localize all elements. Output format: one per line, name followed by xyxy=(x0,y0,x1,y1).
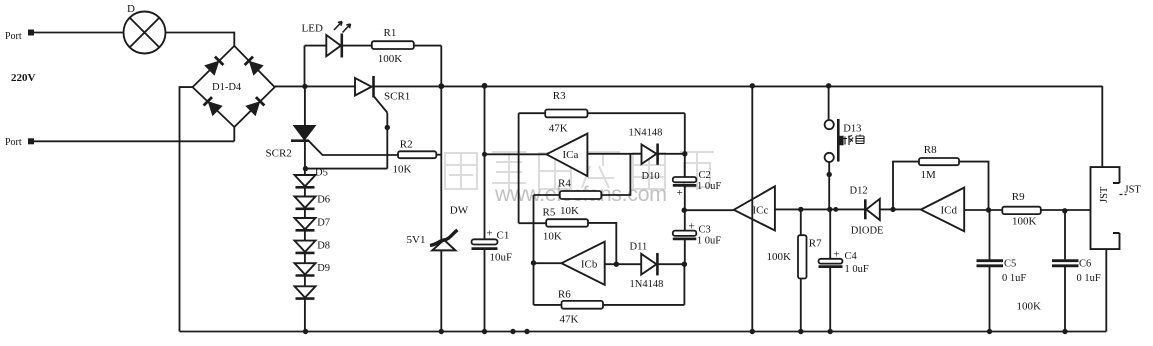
diode (unlabeled, chain) xyxy=(295,286,316,298)
svg-text:C5: C5 xyxy=(1004,259,1016,270)
svg-text:1N4148: 1N4148 xyxy=(629,128,663,139)
junction xyxy=(827,172,832,177)
svg-text:D6: D6 xyxy=(317,195,330,206)
svg-text:1M: 1M xyxy=(921,169,937,181)
svg-text:D9: D9 xyxy=(317,263,330,274)
junction xyxy=(1062,329,1067,334)
svg-text:R2: R2 xyxy=(400,139,413,151)
junction xyxy=(438,83,444,89)
svg-text:220V: 220V xyxy=(11,72,36,84)
label 220V xyxy=(11,72,36,84)
svg-text:R6: R6 xyxy=(558,289,571,301)
svg-text:D11: D11 xyxy=(630,242,648,253)
junction xyxy=(986,207,991,212)
wire (top rail) xyxy=(275,85,1103,87)
svg-text:100K: 100K xyxy=(1017,301,1042,313)
svg-text:R7: R7 xyxy=(809,238,822,250)
resistor R9 xyxy=(1002,191,1041,228)
junction xyxy=(482,83,488,89)
svg-text:ICb: ICb xyxy=(581,259,598,271)
svg-text:+: + xyxy=(689,221,695,233)
svg-text:SCR2: SCR2 xyxy=(266,148,292,160)
svg-text:C4: C4 xyxy=(845,251,858,262)
wire xyxy=(605,263,685,265)
svg-text:D12: D12 xyxy=(850,186,868,197)
svg-text:+: + xyxy=(677,187,683,199)
junction xyxy=(682,151,687,156)
capacitor C1 xyxy=(472,228,513,264)
wire xyxy=(180,87,193,331)
svg-text:1 0uF: 1 0uF xyxy=(697,236,721,247)
diode D10 xyxy=(629,128,663,183)
wire (feedback box left) xyxy=(518,113,520,223)
resistor R8 xyxy=(893,144,989,210)
svg-text:C3: C3 xyxy=(699,225,711,236)
capacitor C5 xyxy=(977,210,1027,332)
LED xyxy=(302,22,372,58)
wire xyxy=(684,209,734,211)
op-amp ICd xyxy=(921,188,964,232)
svg-text:1N4148: 1N4148 xyxy=(630,279,664,290)
junction xyxy=(303,166,308,171)
thyristor SCR1 xyxy=(355,76,410,113)
junction xyxy=(682,262,687,267)
svg-text:D8: D8 xyxy=(317,241,330,252)
junction xyxy=(614,262,619,267)
capacitor C3 xyxy=(673,221,721,247)
svg-text:SCR1: SCR1 xyxy=(384,91,410,103)
wire xyxy=(534,262,562,264)
wire xyxy=(684,113,686,264)
svg-text:1 0uF: 1 0uF xyxy=(697,181,721,192)
wire xyxy=(1101,86,1103,167)
thyristor SCR2 xyxy=(266,126,315,160)
junction xyxy=(828,329,833,334)
junction xyxy=(385,125,390,130)
wire xyxy=(309,141,399,155)
svg-text:D10: D10 xyxy=(642,171,660,182)
zener diode DW 5V1 xyxy=(407,205,469,251)
resistor R1 xyxy=(372,27,442,65)
svg-text:R8: R8 xyxy=(924,144,937,156)
wire xyxy=(1105,249,1107,331)
diode D5 xyxy=(295,168,328,188)
resistor R2 xyxy=(393,139,442,176)
wire xyxy=(304,46,306,87)
junction xyxy=(482,329,487,334)
wire (diode chain) xyxy=(304,86,306,331)
junction xyxy=(439,329,444,334)
diode D6 xyxy=(295,195,331,209)
resistor R3 xyxy=(519,90,685,135)
svg-text:D: D xyxy=(127,3,135,15)
svg-text:ICc: ICc xyxy=(753,205,769,217)
junction xyxy=(750,83,755,88)
junction xyxy=(302,84,307,89)
resistor R6 xyxy=(534,264,685,325)
wire xyxy=(306,168,388,170)
wire xyxy=(386,113,388,169)
svg-text:C2: C2 xyxy=(699,170,711,181)
svg-text:100K: 100K xyxy=(378,53,403,65)
bridge rectifier D1-D4 xyxy=(193,46,275,127)
junction xyxy=(1062,208,1067,213)
diode D7 xyxy=(295,218,331,231)
junction xyxy=(531,260,536,265)
terminal Port (neutral input) xyxy=(5,137,34,148)
resistor R4 xyxy=(534,154,631,199)
op-amp ICa xyxy=(546,134,587,177)
svg-text:100K: 100K xyxy=(767,251,792,263)
svg-text:DW: DW xyxy=(450,205,469,217)
svg-text:10K: 10K xyxy=(543,231,562,243)
diode D12 xyxy=(850,186,884,237)
svg-text:Port: Port xyxy=(5,31,22,42)
svg-text:R5: R5 xyxy=(543,207,556,219)
svg-text:D5: D5 xyxy=(315,168,328,179)
junction xyxy=(890,207,895,212)
wire xyxy=(485,153,547,155)
svg-text:ICd: ICd xyxy=(941,205,958,217)
svg-text:5V1: 5V1 xyxy=(407,234,426,246)
capacitor C2 xyxy=(673,170,722,199)
junction xyxy=(524,329,529,334)
svg-text:0 1uF: 0 1uF xyxy=(1077,273,1101,284)
svg-text:100K: 100K xyxy=(1012,216,1037,228)
junction xyxy=(826,83,831,88)
op-amp ICb xyxy=(562,242,605,285)
resistor R7 xyxy=(767,209,823,331)
svg-text:1 0uF: 1 0uF xyxy=(845,264,869,275)
junction xyxy=(827,207,832,212)
svg-text:D1-D4: D1-D4 xyxy=(212,82,242,93)
svg-text:10uF: 10uF xyxy=(490,252,513,264)
svg-text:JST: JST xyxy=(1099,186,1110,203)
lamp D xyxy=(124,3,166,54)
svg-text:LED: LED xyxy=(302,23,323,35)
diode D11 xyxy=(630,242,664,291)
junction xyxy=(510,329,515,334)
svg-text:R9: R9 xyxy=(1012,191,1025,203)
svg-text:0 1uF: 0 1uF xyxy=(1002,273,1026,284)
wire xyxy=(587,153,684,155)
resistor R5 xyxy=(519,205,617,264)
capacitor C6 xyxy=(1052,211,1101,332)
svg-text:10K: 10K xyxy=(393,164,412,176)
junction xyxy=(303,329,308,334)
connector JST xyxy=(1091,167,1142,249)
wire xyxy=(964,209,1090,211)
junction xyxy=(682,208,687,213)
wire xyxy=(233,127,235,141)
wire xyxy=(484,86,486,332)
svg-text:47K: 47K xyxy=(560,314,579,326)
label 100K (net) xyxy=(1017,301,1042,313)
svg-text:R4: R4 xyxy=(558,178,571,190)
wire xyxy=(751,86,753,332)
wire xyxy=(34,32,124,34)
svg-text:D7: D7 xyxy=(317,218,330,229)
junction xyxy=(987,329,992,334)
terminal Port (line input) xyxy=(5,30,34,43)
wire xyxy=(775,208,921,210)
svg-text:R1: R1 xyxy=(384,27,397,39)
junction xyxy=(798,329,803,334)
wire xyxy=(440,46,442,332)
svg-text:DIODE: DIODE xyxy=(851,226,884,237)
wire (bottom rail) xyxy=(180,331,1107,333)
wire xyxy=(533,195,535,305)
pushbutton D13 xyxy=(825,86,864,210)
svg-text:D13: D13 xyxy=(843,124,861,135)
svg-text:47K: 47K xyxy=(549,123,568,135)
op-amp ICc xyxy=(734,186,775,230)
junction xyxy=(750,329,755,334)
junction xyxy=(798,207,803,212)
junction xyxy=(833,207,838,212)
capacitor C4 xyxy=(819,209,869,331)
junction xyxy=(482,152,487,157)
diode D9 xyxy=(295,263,331,276)
svg-text:JST: JST xyxy=(1125,185,1142,196)
svg-text:C1: C1 xyxy=(497,230,510,242)
svg-text:Port: Port xyxy=(5,137,22,148)
diode D8 xyxy=(295,241,331,253)
svg-text:R3: R3 xyxy=(553,90,566,102)
svg-text:ICa: ICa xyxy=(563,149,579,161)
svg-text:C6: C6 xyxy=(1079,259,1091,270)
wire xyxy=(34,140,234,142)
svg-text:+: + xyxy=(487,228,493,240)
svg-text:+: + xyxy=(833,249,839,261)
svg-text:10K: 10K xyxy=(560,205,579,217)
wire xyxy=(166,33,235,46)
